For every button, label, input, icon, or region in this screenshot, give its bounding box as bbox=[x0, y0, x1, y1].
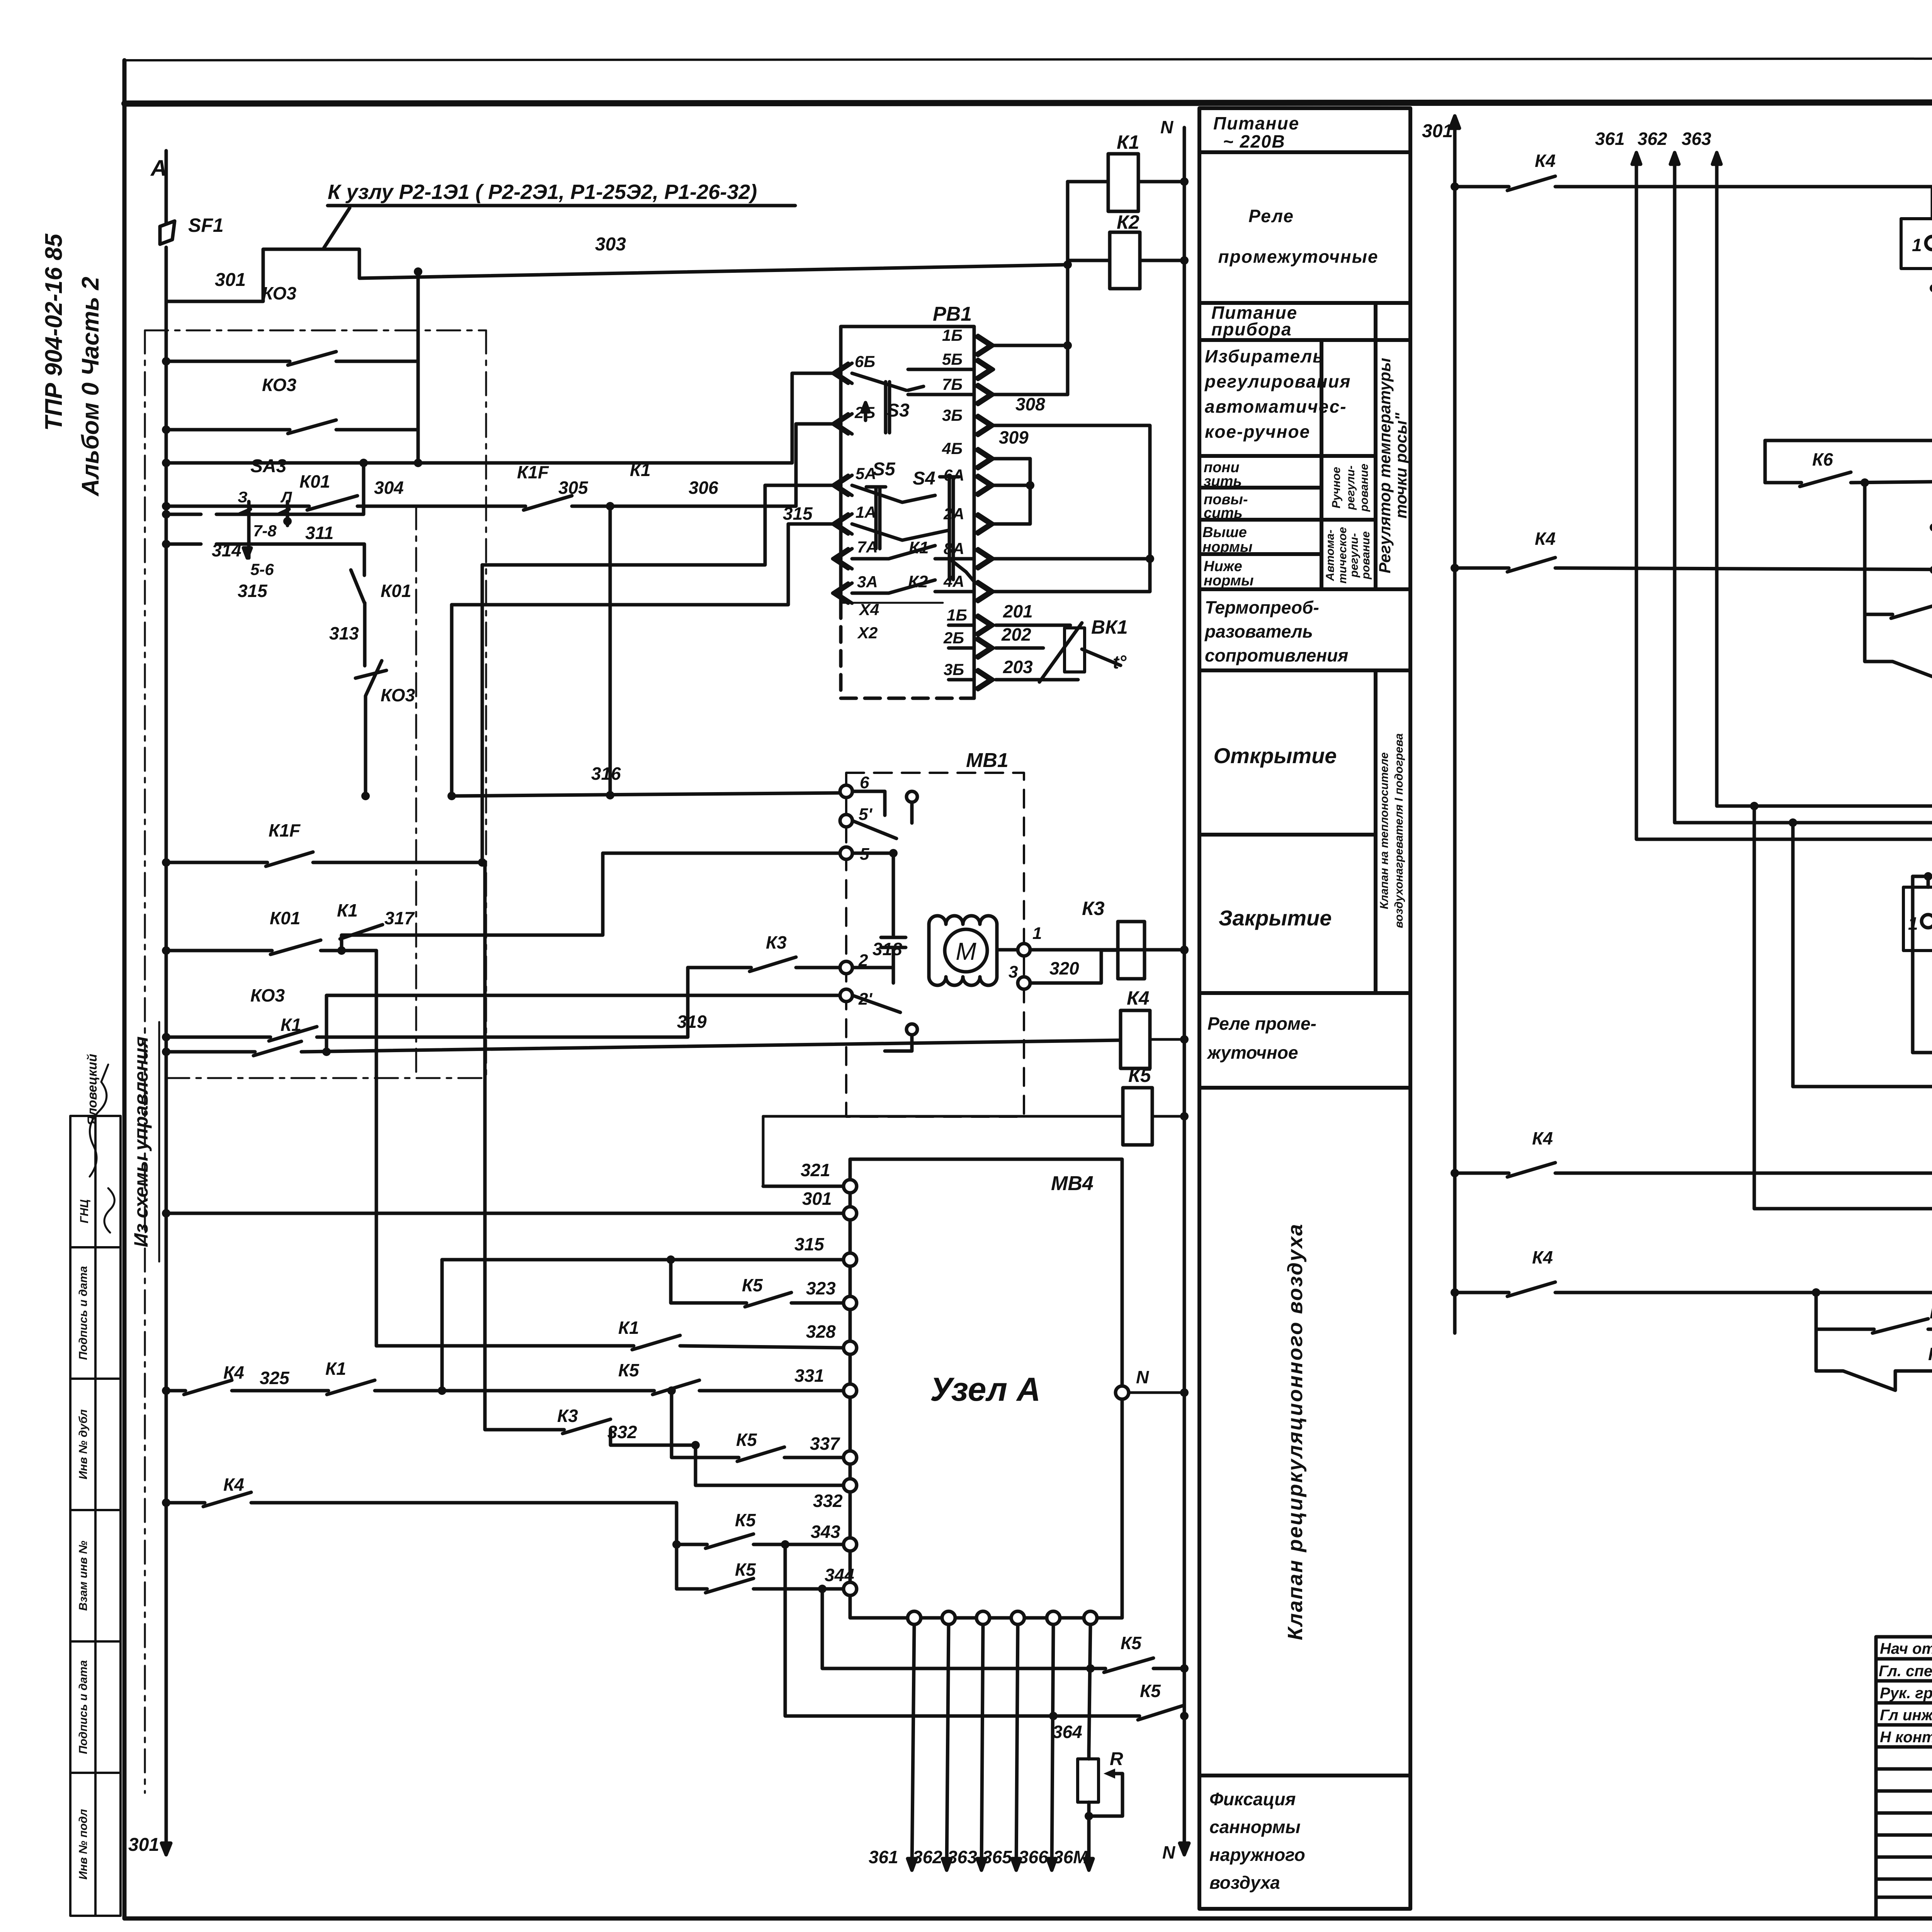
svg-text:Из схемы управления: Из схемы управления bbox=[130, 1036, 152, 1247]
svg-text:Клапан рециркуляционного: Клапан рециркуляционного воздуха bbox=[1284, 1223, 1307, 1640]
svg-text:Гл инж: Гл инж bbox=[1880, 1707, 1932, 1724]
svg-text:А: А bbox=[150, 156, 167, 181]
svg-text:К5: К5 bbox=[735, 1510, 756, 1530]
svg-text:6: 6 bbox=[860, 773, 869, 792]
right-side chevrons 1Б 5Б 7Б 3Б 4Б 6А 2А 8А 4А bbox=[974, 335, 993, 690]
svg-text:361: 361 bbox=[869, 1847, 898, 1867]
N link wire row 2268 bbox=[1913, 875, 1932, 878]
svg-text:315: 315 bbox=[783, 503, 813, 524]
feeder vertical to coils and РВ1 pins bbox=[1066, 182, 1070, 395]
svg-text:301: 301 bbox=[128, 1835, 159, 1855]
svg-text:сопротивления: сопротивления bbox=[1205, 645, 1348, 665]
svg-text:кое-ручное: кое-ручное bbox=[1205, 422, 1310, 442]
svg-text:4Б: 4Б bbox=[942, 439, 963, 457]
svg-text:S4: S4 bbox=[913, 468, 935, 489]
wire 311 (5-6 row) + vertical 313 with К01/КО3 contacts bbox=[166, 544, 386, 796]
svg-text:315: 315 bbox=[794, 1234, 825, 1254]
svg-text:прибора: прибора bbox=[1211, 319, 1292, 339]
svg-text:Рук. гр: Рук. гр bbox=[1880, 1685, 1932, 1702]
svg-text:К6: К6 bbox=[1812, 449, 1833, 469]
svg-text:~ 220В: ~ 220В bbox=[1223, 131, 1286, 151]
svg-text:К1: К1 bbox=[325, 1359, 346, 1379]
svg-text:К4: К4 bbox=[1535, 151, 1556, 171]
svg-text:воздуха: воздуха bbox=[1209, 1872, 1280, 1893]
svg-text:разователь: разователь bbox=[1204, 621, 1313, 641]
svg-text:К1F: К1F bbox=[517, 462, 549, 482]
svg-text:Ручное: Ручное bbox=[1330, 467, 1343, 508]
svg-text:Закрытие: Закрытие bbox=[1219, 906, 1332, 930]
svg-text:наружного: наружного bbox=[1209, 1845, 1305, 1865]
svg-text:311: 311 bbox=[305, 523, 333, 543]
svg-text:Ниже: Ниже bbox=[1204, 558, 1242, 575]
svg-text:1: 1 bbox=[1908, 913, 1918, 934]
svg-text:регули-: регули- bbox=[1348, 533, 1361, 578]
svg-text:жуточное: жуточное bbox=[1206, 1043, 1298, 1063]
svg-text:К1: К1 bbox=[337, 900, 358, 920]
svg-text:КО3: КО3 bbox=[381, 685, 415, 705]
svg-text:К01: К01 bbox=[299, 471, 330, 492]
heavy top rule bbox=[124, 102, 1932, 104]
svg-text:К5: К5 bbox=[1140, 1681, 1161, 1701]
svg-text:344: 344 bbox=[825, 1565, 854, 1585]
svg-text:1Б: 1Б bbox=[947, 606, 967, 624]
svg-text:3Б: 3Б bbox=[942, 406, 963, 424]
svg-text:363: 363 bbox=[947, 1847, 977, 1867]
svg-text:ГНЦ: ГНЦ bbox=[78, 1199, 91, 1223]
svg-text:309: 309 bbox=[999, 427, 1029, 447]
border frame left bbox=[122, 60, 127, 1918]
svg-text:К4: К4 bbox=[1532, 1128, 1553, 1148]
svg-text:323: 323 bbox=[806, 1278, 836, 1298]
svg-text:7Б: 7Б bbox=[942, 375, 963, 393]
wire 7-8 row bbox=[166, 463, 364, 514]
svg-text:Реле проме-: Реле проме- bbox=[1207, 1014, 1316, 1034]
svg-text:КО3: КО3 bbox=[262, 375, 296, 395]
svg-text:301: 301 bbox=[802, 1189, 832, 1209]
svg-text:Яловецкий: Яловецкий bbox=[85, 1054, 100, 1126]
handwritten signatures left margin bbox=[78, 1054, 114, 1233]
svg-text:3Б: 3Б bbox=[944, 660, 964, 679]
svg-text:воздухонагревателя I подогрева: воздухонагревателя I подогрева bbox=[1393, 733, 1405, 928]
svg-text:364: 364 bbox=[1053, 1722, 1082, 1742]
svg-text:К7: К7 bbox=[1930, 1302, 1932, 1322]
svg-text:Открытие: Открытие bbox=[1214, 743, 1337, 768]
vertical feed to 328 bbox=[375, 951, 378, 1346]
svg-text:Автома-: Автома- bbox=[1324, 530, 1337, 582]
border frame bottom bbox=[124, 1917, 1932, 1921]
svg-text:325: 325 bbox=[260, 1368, 290, 1388]
svg-text:Нач отд: Нач отд bbox=[1880, 1640, 1932, 1657]
svg-text:Н контр: Н контр bbox=[1880, 1729, 1932, 1746]
svg-text:К1F: К1F bbox=[269, 820, 301, 840]
svg-text:N: N bbox=[1162, 1842, 1175, 1862]
svg-text:К5: К5 bbox=[1121, 1633, 1142, 1653]
svg-text:301: 301 bbox=[215, 270, 246, 290]
svg-text:5-6: 5-6 bbox=[250, 560, 274, 578]
svg-text:рование: рование bbox=[1359, 531, 1372, 580]
svg-text:К01: К01 bbox=[270, 908, 300, 928]
relay coil К5 bbox=[763, 1065, 1189, 1186]
border frame top thin bbox=[124, 58, 1932, 60]
svg-text:Термопреоб-: Термопреоб- bbox=[1205, 597, 1319, 617]
svg-text:М: М bbox=[956, 937, 976, 965]
svg-text:К1: К1 bbox=[618, 1318, 639, 1338]
svg-text:301: 301 bbox=[1422, 121, 1453, 141]
svg-text:Х2: Х2 bbox=[857, 624, 878, 642]
svg-text:К7: К7 bbox=[1928, 1344, 1932, 1364]
svg-text:SF1: SF1 bbox=[188, 214, 224, 236]
svg-text:320: 320 bbox=[1049, 958, 1079, 978]
svg-text:К4: К4 bbox=[1535, 529, 1556, 549]
svg-text:З: З bbox=[238, 489, 248, 506]
svg-text:362: 362 bbox=[1638, 129, 1667, 149]
svg-text:Гл. спец.: Гл. спец. bbox=[1879, 1663, 1932, 1680]
wire from 1 to N bus bbox=[1030, 948, 1184, 952]
svg-text:нормы: нормы bbox=[1204, 573, 1253, 589]
svg-text:343: 343 bbox=[811, 1522, 840, 1542]
svg-text:К4: К4 bbox=[223, 1475, 244, 1495]
svg-text:саннормы: саннормы bbox=[1209, 1817, 1301, 1837]
svg-text:306: 306 bbox=[689, 478, 718, 498]
svg-text:Альбом 0 Часть 2: Альбом 0 Часть 2 bbox=[77, 277, 104, 497]
svg-text:316: 316 bbox=[591, 764, 621, 784]
svg-text:Избиратель: Избиратель bbox=[1205, 346, 1324, 366]
svg-text:203: 203 bbox=[1003, 657, 1033, 677]
svg-text:2Б: 2Б bbox=[943, 629, 964, 647]
svg-text:К1: К1 bbox=[630, 460, 651, 480]
svg-text:ВК1: ВК1 bbox=[1091, 616, 1128, 638]
svg-text:К1: К1 bbox=[281, 1015, 301, 1035]
svg-text:5': 5' bbox=[859, 805, 872, 824]
svg-text:361: 361 bbox=[1595, 129, 1625, 149]
svg-text:КО3: КО3 bbox=[250, 985, 285, 1005]
long wire to РВ1 6Б bbox=[166, 373, 834, 463]
svg-text:К5: К5 bbox=[742, 1275, 763, 1295]
svg-text:1А: 1А bbox=[855, 503, 876, 521]
svg-text:К5: К5 bbox=[735, 1560, 756, 1580]
svg-text:К01: К01 bbox=[381, 581, 411, 601]
svg-text:Выше: Выше bbox=[1202, 524, 1247, 541]
svg-text:промежуточные: промежуточные bbox=[1218, 247, 1379, 267]
svg-text:Подпись и дата: Подпись и дата bbox=[77, 1266, 90, 1360]
svg-text:321: 321 bbox=[801, 1160, 830, 1180]
svg-text:36М: 36М bbox=[1053, 1847, 1088, 1867]
svg-text:N: N bbox=[1160, 117, 1173, 137]
wire 2' bbox=[327, 995, 840, 1052]
svg-text:332: 332 bbox=[813, 1491, 843, 1511]
svg-text:201: 201 bbox=[1003, 601, 1033, 621]
svg-text:t°: t° bbox=[1113, 652, 1127, 673]
bottom terminals bbox=[908, 1611, 1097, 1624]
riser joining KO3 rows to 303 bbox=[417, 272, 420, 463]
svg-text:К4: К4 bbox=[1127, 987, 1150, 1009]
svg-text:303: 303 bbox=[595, 234, 626, 255]
svg-text:1: 1 bbox=[1912, 235, 1922, 255]
left margin stamp strip bbox=[70, 1116, 121, 1916]
svg-text:3: 3 bbox=[1009, 963, 1018, 981]
svg-text:328: 328 bbox=[806, 1321, 836, 1342]
svg-text:Инв № подл: Инв № подл bbox=[77, 1809, 90, 1879]
svg-text:331: 331 bbox=[794, 1366, 824, 1386]
svg-text:Клапан на теплоносителе: Клапан на теплоносителе bbox=[1378, 752, 1391, 909]
svg-text:точки росы": точки росы" bbox=[1392, 412, 1410, 519]
svg-text:308: 308 bbox=[1015, 394, 1045, 414]
svg-text:363: 363 bbox=[1682, 129, 1711, 149]
МВ4 bottom outgoing wires 361..36М bbox=[912, 1624, 1090, 1870]
wires 361 362 363 from sheet top bbox=[1595, 129, 1711, 149]
svg-text:Узел А: Узел А bbox=[930, 1371, 1041, 1408]
svg-text:Инв № дубл: Инв № дубл bbox=[77, 1409, 90, 1480]
left-side chevrons 6Б 2Б 5А 1А 7А 3А bbox=[833, 363, 852, 603]
svg-text:автоматичес-: автоматичес- bbox=[1205, 396, 1347, 417]
terminals bbox=[840, 785, 852, 798]
wire underline for note bbox=[158, 1022, 160, 1262]
svg-text:тическое: тическое bbox=[1336, 527, 1349, 583]
svg-text:ТПР 904-02-16 85: ТПР 904-02-16 85 bbox=[41, 233, 67, 431]
svg-text:1: 1 bbox=[1032, 924, 1042, 943]
svg-text:К2: К2 bbox=[1117, 211, 1139, 233]
dash-dot boundary lines bbox=[145, 330, 486, 1793]
svg-text:337: 337 bbox=[810, 1434, 840, 1454]
svg-text:МВ4: МВ4 bbox=[1051, 1172, 1094, 1195]
svg-text:К3: К3 bbox=[1082, 898, 1105, 919]
svg-text:Подпись и дата: Подпись и дата bbox=[77, 1660, 90, 1754]
svg-text:7-8: 7-8 bbox=[253, 522, 277, 540]
svg-text:РВ1: РВ1 bbox=[933, 303, 972, 325]
svg-text:МВ1: МВ1 bbox=[966, 749, 1009, 772]
svg-text:305: 305 bbox=[558, 478, 588, 498]
bottom internal switch bbox=[906, 1024, 917, 1035]
svg-text:5Б: 5Б bbox=[942, 350, 963, 368]
svg-text:К4: К4 bbox=[223, 1362, 244, 1383]
svg-text:К5: К5 bbox=[736, 1430, 757, 1450]
small arrow on 2Б bbox=[862, 403, 869, 420]
svg-text:К3: К3 bbox=[766, 932, 787, 952]
svg-text:Взам инв №: Взам инв № bbox=[77, 1541, 90, 1611]
svg-text:КО3: КО3 bbox=[262, 283, 296, 303]
relay coil К4 bbox=[1121, 987, 1189, 1068]
svg-text:К узлу Р2-1Э1 ( Р2-2Э1, Р1-: К узлу Р2-1Э1 ( Р2-2Э1, Р1-25Э2, Р1-26-3… bbox=[328, 180, 757, 204]
svg-text:Питание: Питание bbox=[1213, 113, 1299, 133]
svg-text:нормы: нормы bbox=[1202, 539, 1252, 555]
internal switch top bbox=[906, 791, 917, 802]
svg-text:1Б: 1Б bbox=[942, 326, 963, 344]
bus A bbox=[165, 301, 168, 1855]
svg-text:К5: К5 bbox=[618, 1360, 639, 1380]
svg-text:Фиксация: Фиксация bbox=[1209, 1789, 1296, 1809]
left terminals bbox=[844, 1180, 1129, 1595]
svg-text:315: 315 bbox=[238, 581, 268, 601]
svg-text:зить: зить bbox=[1204, 473, 1242, 490]
svg-text:К4: К4 bbox=[1532, 1247, 1553, 1267]
svg-text:362: 362 bbox=[913, 1847, 942, 1867]
svg-text:313: 313 bbox=[329, 623, 359, 643]
svg-text:Регулятор температуры: Регулятор температуры bbox=[1376, 358, 1394, 573]
svg-text:3А: 3А bbox=[857, 573, 878, 591]
svg-text:SА3: SА3 bbox=[250, 456, 287, 476]
svg-text:регули-: регули- bbox=[1344, 466, 1357, 510]
svg-text:366: 366 bbox=[1019, 1847, 1048, 1867]
svg-text:R: R bbox=[1110, 1749, 1123, 1769]
svg-text:сить: сить bbox=[1204, 505, 1243, 521]
capacitor bbox=[881, 853, 906, 983]
svg-text:202: 202 bbox=[1001, 624, 1031, 645]
svg-text:304: 304 bbox=[374, 478, 404, 498]
svg-text:6Б: 6Б bbox=[855, 352, 875, 371]
svg-text:314: 314 bbox=[212, 540, 241, 560]
svg-text:регулирования: регулирования bbox=[1204, 371, 1351, 391]
svg-text:К1: К1 bbox=[1117, 131, 1139, 153]
svg-text:317: 317 bbox=[384, 908, 415, 928]
svg-text:рование: рование bbox=[1358, 464, 1371, 512]
svg-text:Реле: Реле bbox=[1248, 206, 1294, 226]
svg-text:S5: S5 bbox=[872, 459, 896, 480]
relay coil К3 bbox=[1082, 898, 1189, 979]
svg-text:К3: К3 bbox=[557, 1406, 578, 1426]
motor coils bbox=[929, 916, 997, 924]
svg-text:319: 319 bbox=[677, 1012, 707, 1032]
svg-text:N: N bbox=[1136, 1367, 1149, 1387]
motor M bbox=[945, 929, 987, 972]
svg-text:365: 365 bbox=[982, 1847, 1012, 1867]
svg-text:К5: К5 bbox=[1128, 1065, 1151, 1086]
